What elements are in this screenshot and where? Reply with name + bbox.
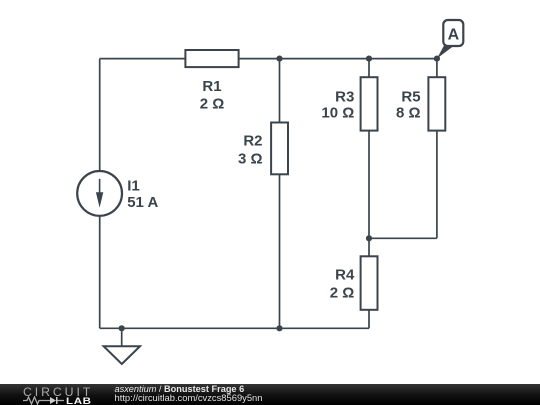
label R2 value bbox=[238, 133, 263, 168]
wire left branch: top-left corner down through I1 to bottom-left corner bbox=[99, 59, 101, 329]
svg-text:A: A bbox=[448, 27, 460, 44]
label R5 value bbox=[396, 88, 421, 121]
svg-text:2 Ω: 2 Ω bbox=[330, 285, 355, 302]
svg-text:I1: I1 bbox=[127, 177, 140, 194]
junction dot at R2 top bbox=[276, 56, 282, 62]
resistor R1 body bbox=[185, 50, 238, 67]
svg-text:R5: R5 bbox=[401, 88, 420, 105]
svg-text:R4: R4 bbox=[335, 266, 355, 283]
footer attribution bar bbox=[0, 384, 540, 405]
CircuitLab logo wordmark CIRCUIT bbox=[23, 385, 93, 399]
wire bottom net bbox=[100, 327, 369, 329]
wire R4 branch vertical bbox=[368, 238, 370, 328]
wire R5 branch vertical bbox=[436, 59, 438, 239]
node A flag box bbox=[443, 20, 463, 46]
wire top net: from top-left corner to node A junction bbox=[100, 58, 437, 60]
svg-text:R2: R2 bbox=[243, 133, 262, 150]
svg-text:R1: R1 bbox=[202, 78, 221, 95]
resistor R5 body bbox=[428, 77, 445, 130]
junction dot at R3 top bbox=[366, 56, 372, 62]
svg-text:3 Ω: 3 Ω bbox=[238, 151, 263, 168]
attribution line 2 bbox=[115, 392, 263, 403]
svg-text:R3: R3 bbox=[335, 88, 354, 105]
wire mid horizontal joining R3/R5 bottoms bbox=[369, 237, 437, 239]
svg-text:2 Ω: 2 Ω bbox=[200, 96, 225, 113]
CircuitLab logo zigzag and diode symbol bbox=[23, 396, 69, 405]
CircuitLab logo wordmark LAB bbox=[66, 396, 92, 405]
node A flag pointer wedge bbox=[437, 43, 452, 58]
wire ground stem bbox=[121, 328, 123, 346]
wire R3 branch vertical bbox=[368, 59, 370, 239]
svg-text:8 Ω: 8 Ω bbox=[396, 105, 421, 122]
svg-text:10 Ω: 10 Ω bbox=[321, 105, 354, 122]
junction dot at ground bbox=[119, 325, 125, 331]
wire R2 branch vertical bbox=[279, 59, 281, 329]
resistor R4 body bbox=[361, 256, 378, 310]
attribution line 1 bbox=[115, 384, 245, 394]
junction dot at R3/R4/R5 mid node bbox=[366, 235, 372, 241]
resistor R2 body bbox=[271, 123, 288, 175]
junction dot at R2 bottom bbox=[276, 325, 282, 331]
resistor R3 body bbox=[361, 77, 378, 130]
current source I1 arrow bbox=[96, 179, 103, 208]
label R1 value bbox=[200, 78, 225, 113]
ground symbol bbox=[104, 346, 140, 364]
junction dot at node A bbox=[434, 56, 440, 62]
label R3 value bbox=[321, 88, 354, 121]
label I1 value bbox=[127, 177, 158, 211]
current source I1 circle bbox=[77, 171, 122, 216]
svg-text:51 A: 51 A bbox=[127, 194, 158, 211]
label R4 value bbox=[330, 266, 355, 301]
